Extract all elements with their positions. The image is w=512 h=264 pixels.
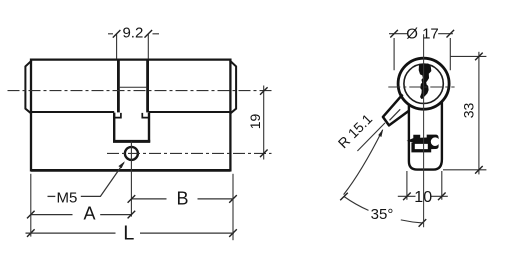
left end cap xyxy=(25,61,31,114)
profile outer circle (front view) xyxy=(398,58,449,109)
slot left edge xyxy=(117,59,120,112)
cam box left notch xyxy=(114,113,121,118)
dimension L ticks xyxy=(27,229,237,237)
cam lug inner line xyxy=(390,109,401,120)
cam silhouette (front view) xyxy=(407,135,439,153)
profile vertical centreline xyxy=(423,34,425,227)
dimension A ticks xyxy=(27,211,135,219)
svg-text:33: 33 xyxy=(460,103,476,119)
M5 leader arrowhead xyxy=(118,161,125,168)
dimension B line xyxy=(131,198,233,200)
svg-text:A: A xyxy=(83,203,95,223)
dimension dia 17 extension lines xyxy=(394,38,450,70)
dimension 9.2 ticks xyxy=(113,30,152,38)
dimension 10 ticks xyxy=(403,193,446,201)
cam centre vertical line xyxy=(130,141,132,216)
M5 leader line xyxy=(81,163,124,197)
svg-text:L: L xyxy=(123,222,134,244)
dimension B ticks xyxy=(128,195,237,203)
svg-text:9.2: 9.2 xyxy=(122,25,143,42)
keyway profile xyxy=(420,64,431,98)
M5 screw hole circle xyxy=(125,147,138,160)
dimension 33 line xyxy=(478,52,480,175)
dimension 10 line xyxy=(398,195,448,197)
svg-text:B: B xyxy=(176,189,188,209)
profile body (front view) xyxy=(409,102,442,170)
profile horizontal centreline xyxy=(388,86,454,88)
slot right edge xyxy=(146,59,149,112)
cylinder body outline (side view) xyxy=(31,60,230,171)
left extension line xyxy=(30,174,32,237)
right end cap xyxy=(230,61,236,114)
main horizontal centreline xyxy=(8,90,272,92)
dimension 33 extension lines xyxy=(443,56,486,169)
dimension 19 line xyxy=(263,86,265,160)
dimension L line xyxy=(26,232,235,234)
cam lug stub xyxy=(383,94,409,125)
R15.1 arrowhead xyxy=(378,129,383,137)
svg-text:19: 19 xyxy=(247,114,263,130)
dimension dia 17 ticks xyxy=(390,30,454,38)
dimension 10 extension lines xyxy=(407,171,442,200)
svg-text:M5: M5 xyxy=(57,189,78,206)
dimension 33 ticks xyxy=(475,53,483,174)
M5 label dash xyxy=(48,195,56,197)
svg-text:Ø 17: Ø 17 xyxy=(406,25,439,42)
right extension line xyxy=(232,174,234,240)
dimension 9.2 line tails xyxy=(108,33,159,35)
cam box xyxy=(114,113,149,142)
dimension 9.2 extension lines xyxy=(117,34,149,59)
dimension dia 17 line xyxy=(389,33,453,35)
profile inner circle xyxy=(404,64,443,103)
35 degree arc ticks xyxy=(340,193,426,227)
barrel parting line xyxy=(31,111,230,113)
35 degree arc xyxy=(344,197,422,223)
cam horizontal centreline xyxy=(107,152,272,154)
dimension 19 ticks xyxy=(260,87,268,157)
cam box right notch xyxy=(142,113,149,118)
svg-text:35°: 35° xyxy=(371,206,394,223)
R15.1 leader line xyxy=(357,123,385,151)
R15.1 radial line xyxy=(344,130,383,195)
dimension A line xyxy=(31,214,132,216)
slot inner line xyxy=(118,86,147,88)
